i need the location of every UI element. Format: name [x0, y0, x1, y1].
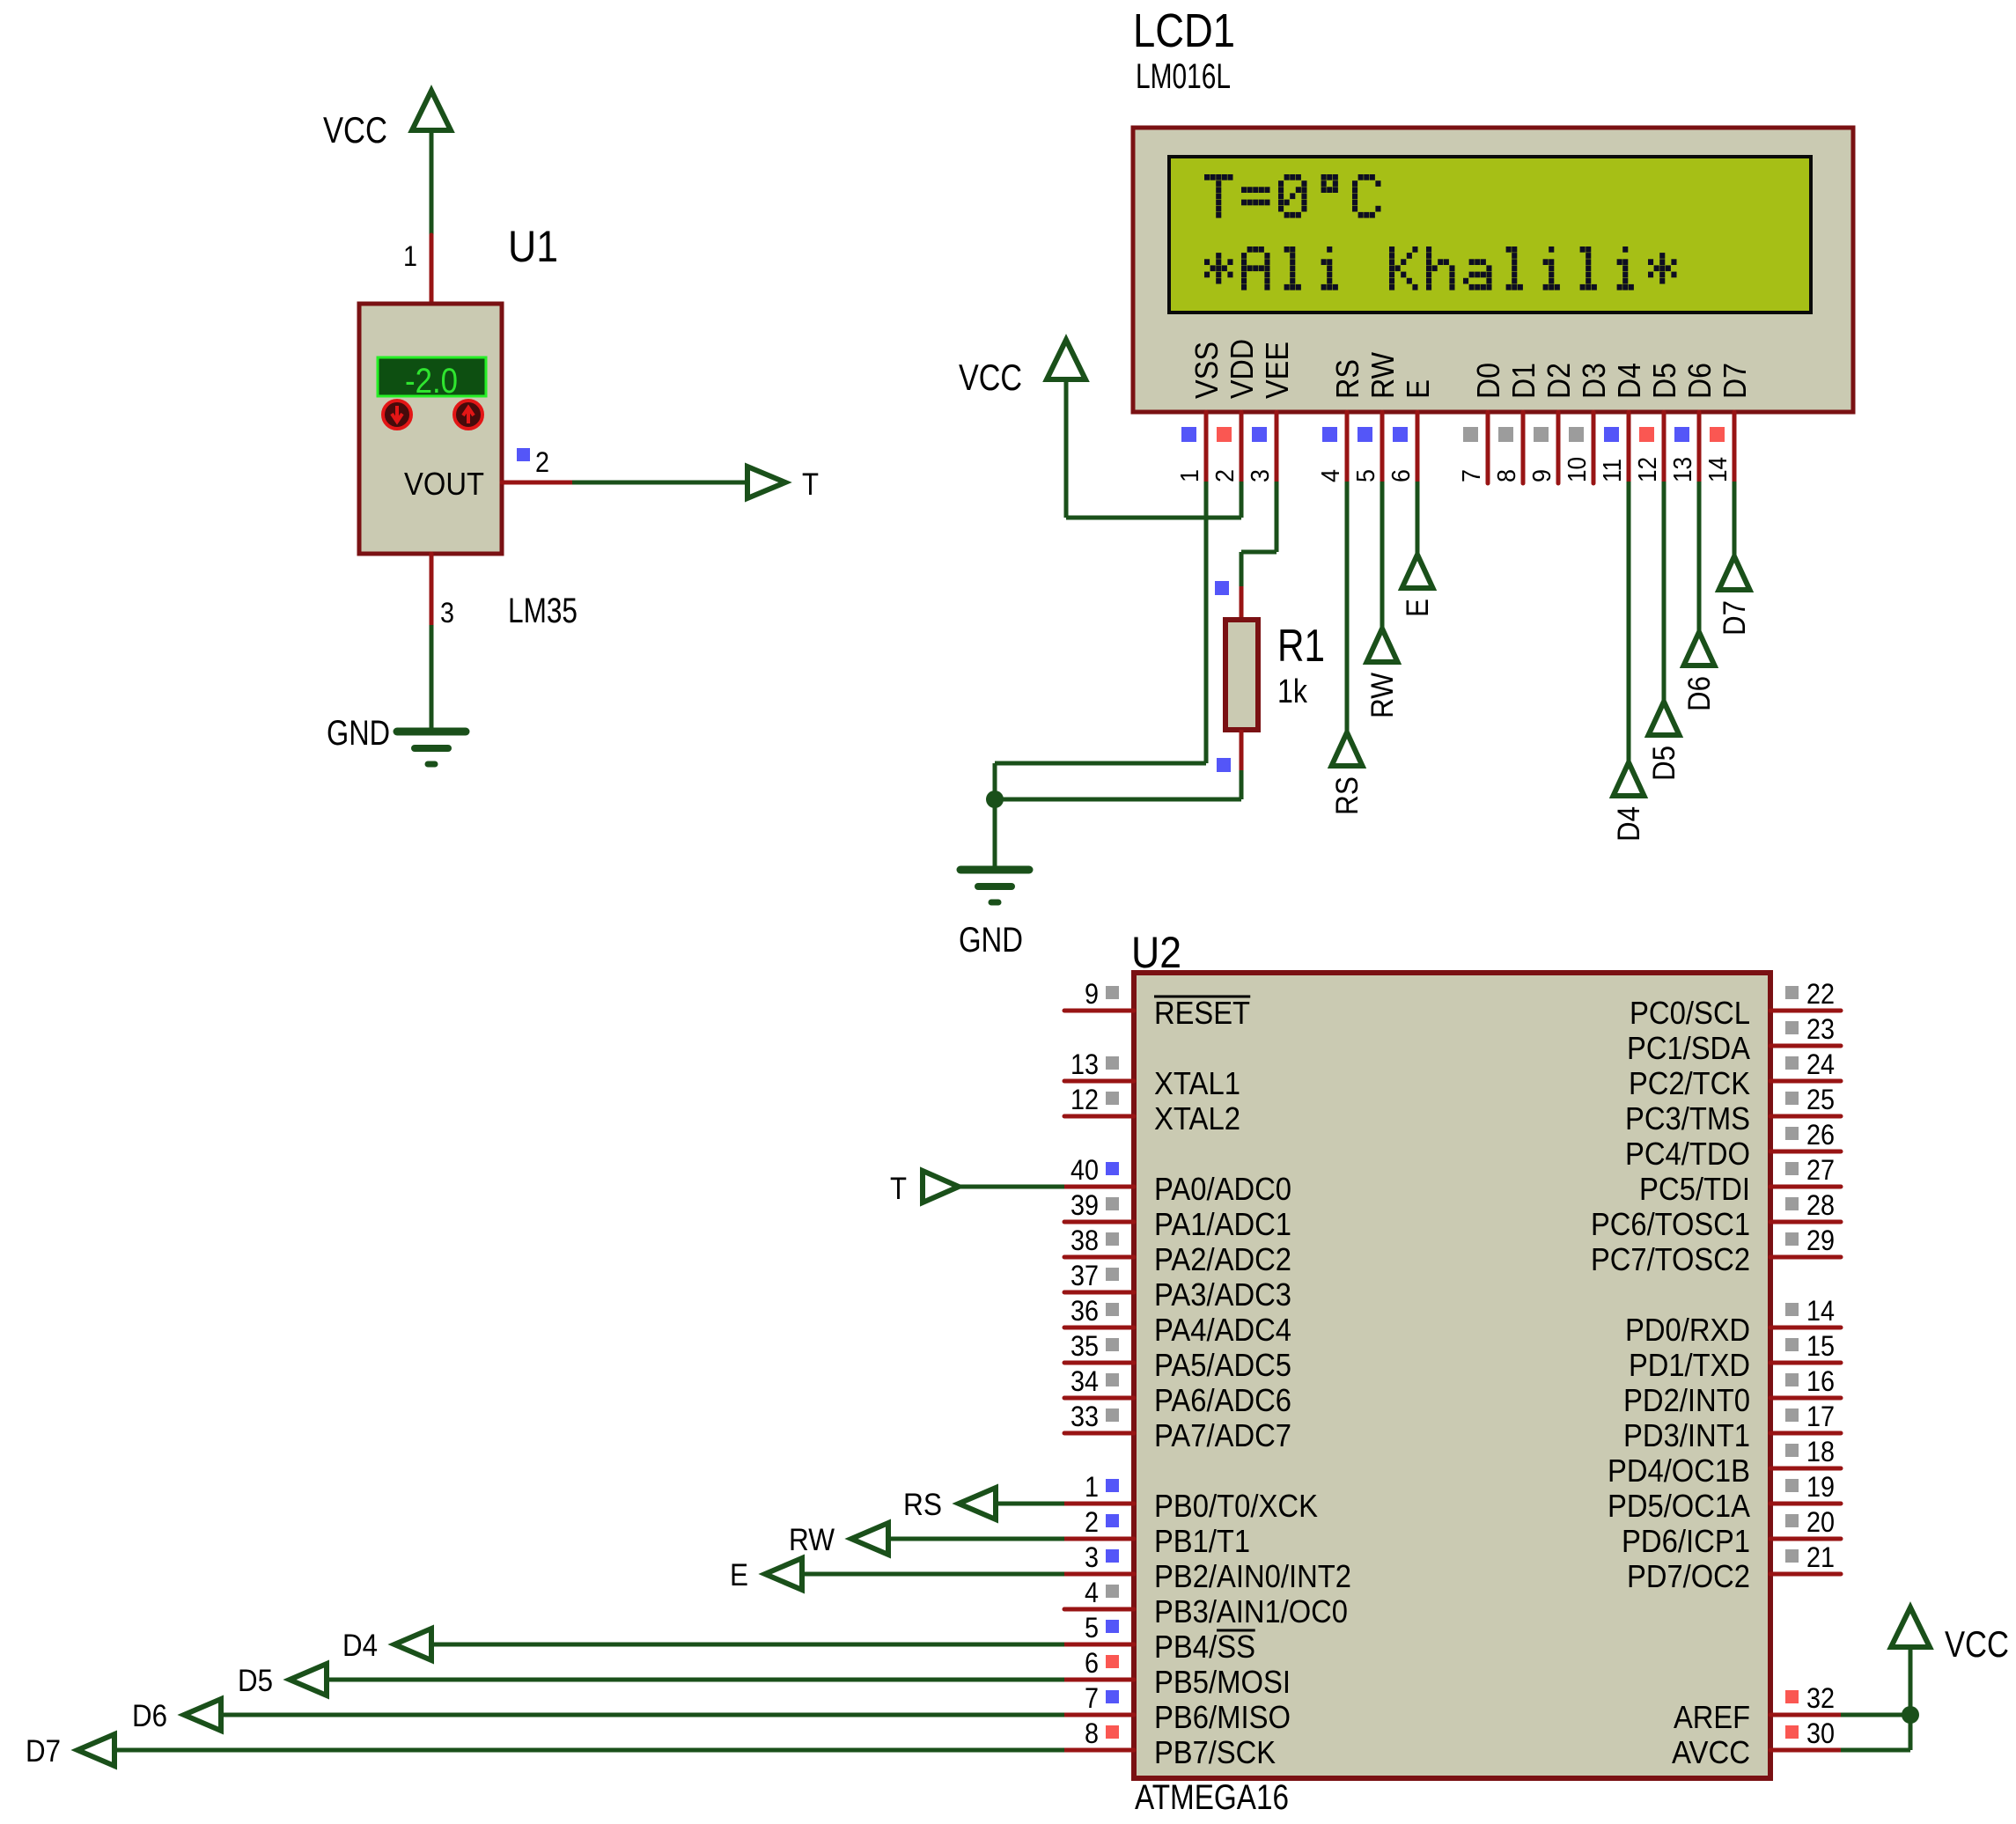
svg-text:VCC: VCC — [1945, 1623, 2009, 1665]
svg-text:ATMEGA16: ATMEGA16 — [1135, 1778, 1289, 1817]
svg-text:D7: D7 — [1717, 363, 1753, 399]
svg-text:PC0/SCL: PC0/SCL — [1630, 995, 1750, 1031]
svg-text:D5: D5 — [1647, 746, 1681, 781]
svg-text:PC1/SDA: PC1/SDA — [1627, 1030, 1750, 1066]
svg-text:PB6/MISO: PB6/MISO — [1154, 1699, 1291, 1735]
svg-text:8: 8 — [1085, 1717, 1099, 1749]
svg-text:3: 3 — [1085, 1541, 1099, 1573]
svg-text:PA3/ADC3: PA3/ADC3 — [1154, 1276, 1291, 1313]
svg-text:PD7/OC2: PD7/OC2 — [1627, 1558, 1750, 1594]
svg-text:PC3/TMS: PC3/TMS — [1625, 1100, 1750, 1136]
svg-text:PD5/OC1A: PD5/OC1A — [1608, 1488, 1750, 1524]
svg-text:RS: RS — [903, 1488, 942, 1522]
svg-text:PD6/ICP1: PD6/ICP1 — [1622, 1523, 1750, 1559]
svg-text:PB3/AIN1/OC0: PB3/AIN1/OC0 — [1154, 1593, 1348, 1629]
svg-text:9: 9 — [1085, 978, 1099, 1010]
svg-text:5: 5 — [1352, 469, 1380, 482]
svg-text:39: 39 — [1071, 1189, 1099, 1221]
svg-text:D1: D1 — [1505, 363, 1541, 399]
svg-text:XTAL2: XTAL2 — [1154, 1100, 1240, 1136]
svg-text:35: 35 — [1071, 1330, 1099, 1362]
svg-text:16: 16 — [1806, 1365, 1835, 1397]
svg-text:23: 23 — [1806, 1013, 1835, 1045]
svg-text:AREF: AREF — [1674, 1699, 1750, 1735]
svg-text:6: 6 — [1085, 1647, 1099, 1679]
svg-text:D3: D3 — [1576, 363, 1612, 399]
svg-text:PB1/T1: PB1/T1 — [1154, 1523, 1250, 1559]
svg-text:GND: GND — [959, 921, 1023, 960]
svg-text:PC6/TOSC1: PC6/TOSC1 — [1591, 1206, 1750, 1242]
svg-text:PD2/INT0: PD2/INT0 — [1623, 1382, 1750, 1418]
svg-text:34: 34 — [1071, 1365, 1099, 1397]
svg-text:1: 1 — [403, 240, 417, 272]
svg-text:25: 25 — [1806, 1084, 1835, 1115]
svg-text:RW: RW — [1365, 673, 1400, 718]
svg-text:37: 37 — [1071, 1260, 1099, 1291]
svg-text:2: 2 — [1085, 1506, 1099, 1538]
svg-text:26: 26 — [1806, 1119, 1835, 1151]
svg-text:14: 14 — [1704, 457, 1733, 482]
svg-text:PC5/TDI: PC5/TDI — [1639, 1171, 1750, 1207]
svg-text:D4: D4 — [342, 1629, 378, 1663]
svg-text:RS: RS — [1329, 359, 1365, 399]
svg-text:VSS: VSS — [1188, 342, 1225, 399]
svg-text:PB2/AIN0/INT2: PB2/AIN0/INT2 — [1154, 1558, 1351, 1594]
svg-text:8: 8 — [1493, 469, 1521, 482]
svg-text:RW: RW — [1365, 352, 1401, 399]
svg-text:7: 7 — [1458, 469, 1486, 482]
svg-text:2: 2 — [1211, 469, 1240, 482]
svg-text:PC2/TCK: PC2/TCK — [1629, 1065, 1750, 1101]
svg-text:PA7/ADC7: PA7/ADC7 — [1154, 1417, 1291, 1453]
svg-text:AVCC: AVCC — [1672, 1734, 1750, 1770]
svg-text:VDD: VDD — [1224, 339, 1260, 399]
svg-text:GND: GND — [327, 714, 390, 753]
svg-text:D6: D6 — [132, 1699, 167, 1733]
svg-text:PA2/ADC2: PA2/ADC2 — [1154, 1241, 1291, 1277]
svg-text:PB5/MOSI: PB5/MOSI — [1154, 1664, 1291, 1700]
svg-text:E: E — [730, 1558, 748, 1592]
svg-text:T: T — [802, 467, 819, 502]
svg-text:1: 1 — [1176, 469, 1204, 482]
svg-text:D5: D5 — [238, 1664, 273, 1698]
svg-text:15: 15 — [1806, 1330, 1835, 1362]
svg-text:7: 7 — [1085, 1682, 1099, 1714]
svg-text:3: 3 — [440, 597, 454, 629]
svg-text:PA6/ADC6: PA6/ADC6 — [1154, 1382, 1291, 1418]
svg-text:PA0/ADC0: PA0/ADC0 — [1154, 1171, 1291, 1207]
svg-text:36: 36 — [1071, 1295, 1099, 1327]
svg-text:LM016L: LM016L — [1136, 57, 1231, 96]
svg-text:18: 18 — [1806, 1436, 1835, 1467]
svg-text:R1: R1 — [1277, 621, 1325, 672]
svg-text:12: 12 — [1071, 1084, 1099, 1115]
svg-text:PD0/RXD: PD0/RXD — [1625, 1312, 1750, 1348]
svg-text:4: 4 — [1317, 469, 1345, 482]
svg-text:VOUT: VOUT — [404, 466, 484, 502]
svg-text:22: 22 — [1806, 978, 1835, 1010]
svg-text:D4: D4 — [1611, 363, 1647, 399]
svg-text:LCD1: LCD1 — [1133, 4, 1235, 57]
svg-text:32: 32 — [1806, 1682, 1835, 1714]
svg-text:T: T — [890, 1172, 907, 1206]
svg-text:9: 9 — [1528, 469, 1556, 482]
svg-text:6: 6 — [1387, 469, 1416, 482]
svg-text:12: 12 — [1634, 457, 1662, 482]
svg-text:2: 2 — [535, 446, 549, 478]
svg-text:PA5/ADC5: PA5/ADC5 — [1154, 1347, 1291, 1383]
svg-text:PD3/INT1: PD3/INT1 — [1623, 1417, 1750, 1453]
svg-text:5: 5 — [1085, 1612, 1099, 1644]
svg-text:30: 30 — [1806, 1717, 1835, 1749]
svg-text:PB4/SS: PB4/SS — [1154, 1629, 1255, 1665]
svg-text:20: 20 — [1806, 1506, 1835, 1538]
svg-text:VEE: VEE — [1259, 342, 1295, 399]
svg-text:3: 3 — [1247, 469, 1275, 482]
svg-text:10: 10 — [1564, 457, 1592, 482]
svg-text:D6: D6 — [1681, 363, 1718, 399]
svg-text:D7: D7 — [1718, 600, 1752, 636]
svg-text:D6: D6 — [1682, 676, 1717, 711]
svg-text:11: 11 — [1599, 459, 1627, 482]
svg-text:D4: D4 — [1612, 806, 1646, 842]
svg-text:1k: 1k — [1277, 673, 1308, 710]
svg-text:D2: D2 — [1541, 363, 1577, 399]
svg-text:VCC: VCC — [323, 109, 387, 151]
svg-text:RS: RS — [1330, 776, 1365, 815]
svg-text:PA1/ADC1: PA1/ADC1 — [1154, 1206, 1291, 1242]
svg-text:19: 19 — [1806, 1471, 1835, 1503]
svg-text:PD4/OC1B: PD4/OC1B — [1608, 1453, 1750, 1489]
svg-text:U1: U1 — [508, 222, 558, 271]
svg-text:38: 38 — [1071, 1225, 1099, 1256]
svg-text:PA4/ADC4: PA4/ADC4 — [1154, 1312, 1291, 1348]
svg-text:D0: D0 — [1470, 363, 1506, 399]
svg-text:D5: D5 — [1646, 363, 1682, 399]
svg-text:4: 4 — [1085, 1577, 1099, 1608]
svg-text:PC4/TDO: PC4/TDO — [1625, 1136, 1750, 1172]
svg-text:RESET: RESET — [1154, 995, 1250, 1031]
svg-text:13: 13 — [1669, 457, 1697, 482]
svg-text:E: E — [1401, 599, 1435, 617]
svg-text:VCC: VCC — [959, 357, 1022, 398]
svg-text:1: 1 — [1085, 1471, 1099, 1503]
svg-text:-2.0: -2.0 — [405, 362, 458, 401]
svg-text:U2: U2 — [1131, 928, 1181, 977]
svg-text:PB7/SCK: PB7/SCK — [1154, 1734, 1276, 1770]
svg-text:RW: RW — [789, 1523, 835, 1557]
svg-text:21: 21 — [1806, 1541, 1835, 1573]
svg-text:PD1/TXD: PD1/TXD — [1629, 1347, 1750, 1383]
svg-text:40: 40 — [1071, 1154, 1099, 1186]
svg-text:XTAL1: XTAL1 — [1154, 1065, 1240, 1101]
svg-text:PC7/TOSC2: PC7/TOSC2 — [1591, 1241, 1750, 1277]
svg-text:27: 27 — [1806, 1154, 1835, 1186]
svg-text:29: 29 — [1806, 1225, 1835, 1256]
svg-text:LM35: LM35 — [508, 592, 578, 630]
svg-text:14: 14 — [1806, 1295, 1835, 1327]
svg-text:D7: D7 — [26, 1734, 61, 1769]
svg-text:33: 33 — [1071, 1401, 1099, 1432]
svg-text:PB0/T0/XCK: PB0/T0/XCK — [1154, 1488, 1318, 1524]
svg-text:24: 24 — [1806, 1048, 1835, 1080]
svg-text:E: E — [1400, 379, 1436, 399]
svg-text:13: 13 — [1071, 1048, 1099, 1080]
svg-text:28: 28 — [1806, 1189, 1835, 1221]
svg-text:17: 17 — [1806, 1401, 1835, 1432]
